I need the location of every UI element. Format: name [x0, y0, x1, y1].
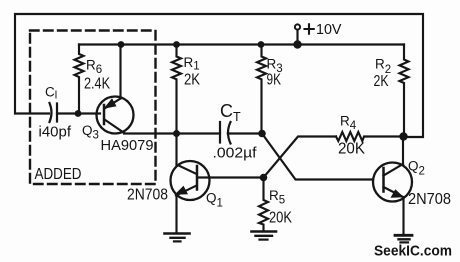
- svg-text:CT: CT: [220, 101, 241, 124]
- svg-text:2.4K: 2.4K: [84, 76, 110, 93]
- wire Q2 collector: [402, 137, 404, 165]
- node: R1 bottom / Q1 collector: [173, 130, 180, 137]
- svg-text:2N708: 2N708: [408, 191, 451, 208]
- transistor Q2 (NPN 2N708): [373, 163, 412, 202]
- svg-text:R6: R6: [86, 58, 102, 77]
- node: Q3 emitter on rail: [118, 41, 125, 48]
- svg-text:Cl: Cl: [45, 85, 57, 102]
- wire Q3 collector to CT and R1 bottom: [124, 132, 220, 134]
- capacitor C1: [50, 103, 52, 122]
- svg-text:HA9079: HA9079: [101, 137, 154, 154]
- capacitor CT .002uf: [219, 122, 221, 143]
- node: R2 bottom / R4 / Q2 collector: [399, 132, 407, 140]
- svg-text:2K: 2K: [184, 72, 200, 89]
- ground Q1: [165, 232, 190, 235]
- wire Q1 emitter to ground: [175, 196, 177, 234]
- resistor R3 9K: [257, 45, 266, 134]
- resistor R5 20K: [259, 178, 268, 232]
- svg-text:2K: 2K: [374, 73, 389, 90]
- label +10V: [305, 24, 314, 33]
- wire Q1 collector: [175, 134, 177, 165]
- wire Q1 base: [198, 176, 264, 178]
- node: Q3 base / R6 / C1 junction: [75, 110, 82, 117]
- svg-text:2N708: 2N708: [127, 187, 168, 204]
- resistor R1 2K: [172, 45, 181, 134]
- wire cross-coupling diagonal to Q2 base: [262, 134, 373, 180]
- svg-text:Q3: Q3: [82, 123, 99, 142]
- svg-text:Q1: Q1: [206, 191, 223, 210]
- wire cross-coupling diagonal to R4: [264, 137, 337, 178]
- ground Q2: [395, 234, 412, 237]
- resistor R6: [75, 45, 84, 114]
- node: R3 bottom / CT right: [258, 130, 266, 138]
- transistor Q3 (PNP HA9079): [97, 97, 134, 134]
- wire Q2 emitter to ground: [402, 197, 404, 235]
- wire feedback loop from C1 left plate up over the top to Q2 collector node: [15, 14, 423, 137]
- dashed box ADDED: [30, 31, 156, 185]
- svg-text:i40pf: i40pf: [39, 125, 72, 141]
- svg-text:20K: 20K: [338, 141, 366, 158]
- svg-text:.002µf: .002µf: [213, 145, 258, 162]
- svg-text:ADDED: ADDED: [35, 166, 82, 183]
- svg-text:R1: R1: [184, 55, 200, 73]
- wire Q3 emitter to +10V rail: [119, 45, 121, 99]
- +10V supply terminal: [295, 24, 300, 29]
- svg-text:R4: R4: [340, 114, 357, 133]
- node: R5 top / Q1 base: [260, 174, 268, 182]
- svg-text:R5: R5: [269, 188, 285, 207]
- wire +10V rail: [79, 43, 404, 45]
- svg-text:9K: 9K: [267, 72, 282, 89]
- wire C1 to Q3 base: [57, 112, 100, 114]
- svg-text:SeekIC.com: SeekIC.com: [374, 243, 452, 260]
- ground R5: [252, 230, 277, 233]
- transistor Q1 (NPN 2N708, mirrored): [171, 161, 210, 200]
- svg-text:10V: 10V: [316, 22, 342, 38]
- resistor R4 20K: [336, 132, 404, 141]
- resistor R2 2K: [400, 45, 409, 137]
- svg-text:20K: 20K: [269, 210, 293, 227]
- node: R1 top on rail: [173, 41, 180, 48]
- node: R3 top on rail: [258, 41, 265, 48]
